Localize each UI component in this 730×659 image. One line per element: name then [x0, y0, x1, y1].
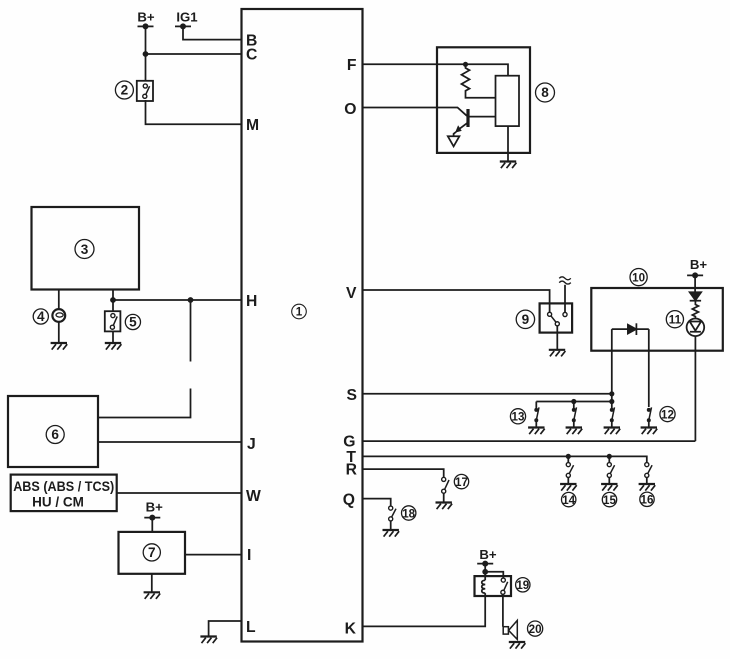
svg-text:5: 5: [129, 315, 137, 330]
svg-text:K: K: [345, 620, 357, 637]
svg-text:J: J: [247, 436, 256, 453]
svg-text:B+: B+: [690, 257, 708, 272]
svg-text:9: 9: [522, 312, 530, 327]
svg-text:4: 4: [37, 309, 45, 324]
svg-text:M: M: [246, 117, 259, 134]
svg-text:10: 10: [632, 271, 645, 284]
svg-text:18: 18: [402, 507, 415, 520]
svg-text:W: W: [246, 488, 261, 505]
svg-text:ABS (ABS / TCS): ABS (ABS / TCS): [13, 479, 114, 494]
svg-text:15: 15: [603, 494, 616, 507]
svg-text:B+: B+: [137, 10, 155, 25]
svg-text:S: S: [347, 387, 357, 404]
svg-text:2: 2: [121, 83, 129, 98]
svg-text:3: 3: [81, 242, 89, 257]
svg-text:I: I: [247, 547, 251, 564]
svg-text:13: 13: [512, 411, 525, 424]
svg-text:V: V: [346, 285, 357, 302]
svg-text:B+: B+: [146, 500, 164, 515]
svg-text:17: 17: [455, 476, 468, 489]
svg-text:20: 20: [529, 623, 542, 636]
svg-text:7: 7: [148, 545, 156, 560]
svg-text:1: 1: [296, 306, 303, 319]
svg-text:HU / CM: HU / CM: [32, 495, 84, 510]
svg-text:11: 11: [669, 314, 682, 327]
svg-text:F: F: [347, 57, 357, 74]
svg-text:G: G: [343, 433, 355, 450]
svg-text:O: O: [344, 101, 356, 118]
svg-text:Q: Q: [343, 491, 355, 508]
svg-text:12: 12: [661, 408, 674, 421]
svg-text:14: 14: [562, 494, 575, 507]
svg-text:R: R: [346, 462, 357, 479]
svg-text:16: 16: [641, 494, 654, 507]
svg-text:L: L: [246, 619, 256, 636]
svg-text:19: 19: [516, 579, 529, 592]
svg-text:H: H: [246, 293, 257, 310]
svg-text:8: 8: [541, 85, 549, 100]
svg-text:B+: B+: [479, 547, 497, 562]
svg-text:IG1: IG1: [176, 10, 197, 25]
svg-text:C: C: [246, 47, 257, 64]
svg-text:6: 6: [51, 427, 59, 442]
